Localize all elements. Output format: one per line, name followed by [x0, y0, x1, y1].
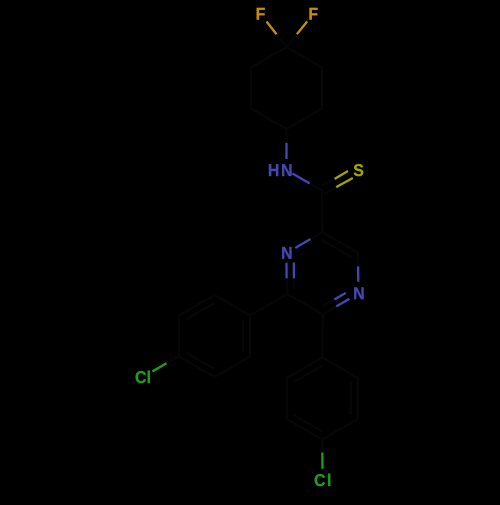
bond ring B C4''-Cl2 (chlorine half)	[321, 453, 323, 469]
atom label N of HN	[282, 164, 291, 176]
chlorophenyl ring A skeleton	[179, 295, 250, 377]
pyrazine bond N1-C2 (carbon half)	[311, 232, 323, 239]
bond C4-F2 (carbon half)	[287, 34, 297, 47]
bond C1-N amide (carbon half)	[285, 129, 287, 144]
bond pyrazine C6 - chlorophenyl ring A ipso	[250, 294, 287, 316]
atom label S	[354, 164, 364, 176]
pyrazine bond C3-N4 (carbon half)	[357, 252, 360, 266]
ring A inner aromatic lines	[186, 303, 243, 369]
pyrazine bond N4=C5 inner line (nitrogen half)	[334, 293, 346, 300]
pyrazine bond C5-C6	[287, 294, 323, 314]
atom label Cl2 letter l	[328, 474, 330, 486]
pyrazine bond C2=C3 main line	[322, 232, 358, 252]
atom label Cl2 letter C	[315, 474, 325, 486]
pyrazine bond N1-C2 (nitrogen half)	[295, 239, 310, 248]
ring B inner aromatic lines	[294, 366, 351, 432]
C=S double bond line 2 (carbon half)	[324, 187, 337, 194]
atom label Cl1 letter l	[148, 371, 150, 383]
pyrazine bond N1=C6 main line (nitrogen half)	[285, 263, 287, 279]
atom label pyrazine N1	[282, 247, 291, 259]
atom label Cl1 letter C	[136, 371, 146, 383]
pyrazine bond N4=C5 inner line (carbon half)	[323, 300, 335, 307]
atom label F1	[257, 8, 265, 20]
cyclohexane ring (carbon skeleton, near-invisible)	[251, 47, 322, 129]
pyrazine bond N1=C6 main line (carbon half)	[285, 278, 288, 294]
bond pyrazine C5 - chlorophenyl ring B ipso	[321, 314, 324, 357]
bond N amide - C thioamide (nitrogen half)	[292, 173, 310, 183]
bond ring A C4'-Cl1 (carbon half)	[167, 357, 178, 364]
bond C4-F1 (fluorine half)	[267, 22, 277, 35]
pyrazine bond C3-N4 (nitrogen half)	[357, 266, 359, 281]
bond C4-F1 (carbon half)	[277, 34, 287, 47]
bond C thioamide - pyrazine C2	[321, 191, 323, 233]
bond ring A C4'-Cl1 (chlorine half)	[152, 363, 166, 371]
C=S double bond line 2 (sulfur half)	[336, 178, 353, 187]
pyrazine bond N1=C6 inner line (nitrogen half)	[293, 263, 295, 279]
pyrazine bond N4=C5 main line (carbon half)	[323, 307, 336, 315]
bond ring B C4''-Cl2 (carbon half)	[321, 440, 323, 455]
bond C4-F2 (fluorine half)	[297, 21, 307, 34]
pyrazine bond C2=C3 inner line	[321, 240, 352, 257]
C=S double bond line 1 (sulfur half)	[335, 171, 348, 179]
bond N amide - C thioamide (carbon half)	[310, 184, 322, 191]
pyrazine bond N4=C5 main line (nitrogen half)	[336, 299, 349, 307]
atom label H of HN	[269, 164, 278, 176]
pyrazine bond N1=C6 inner line (carbon half)	[293, 278, 295, 289]
atom label pyrazine N4	[354, 287, 363, 299]
C=S double bond line 1 (carbon half)	[322, 179, 335, 186]
atom label F2	[309, 8, 317, 20]
chlorophenyl ring B skeleton	[287, 358, 358, 440]
bond C1-N amide (nitrogen half)	[285, 143, 287, 159]
